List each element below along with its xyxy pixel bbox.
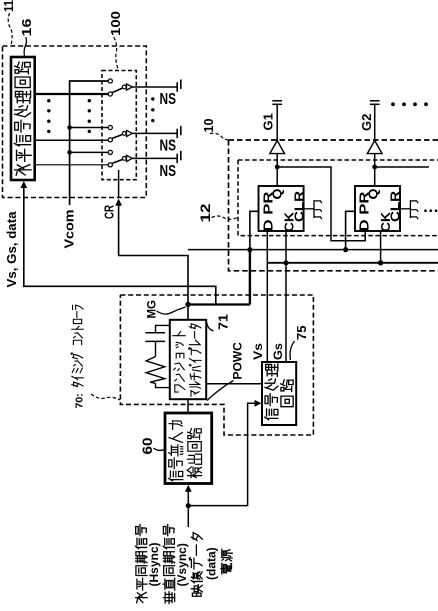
svg-text:10: 10 xyxy=(201,119,216,133)
svg-text:CLR: CLR xyxy=(389,191,403,222)
svg-text:Vs: Vs xyxy=(251,343,265,360)
svg-text:NS: NS xyxy=(160,91,177,108)
svg-text:(Hsync): (Hsync) xyxy=(147,542,161,586)
svg-text:16: 16 xyxy=(19,19,34,37)
svg-text:G2: G2 xyxy=(359,114,374,131)
svg-text:(data): (data) xyxy=(205,547,219,580)
svg-text:Q: Q xyxy=(367,188,381,199)
svg-text:(Vsync): (Vsync) xyxy=(175,543,189,586)
svg-text:CR: CR xyxy=(103,205,117,219)
svg-text:Vs, Gs, data: Vs, Gs, data xyxy=(5,210,19,287)
svg-text:70:: 70: xyxy=(73,393,85,408)
svg-text:Gs: Gs xyxy=(271,343,285,360)
svg-text:Vcom: Vcom xyxy=(63,210,77,249)
svg-text:60: 60 xyxy=(140,438,155,455)
svg-text:G1: G1 xyxy=(261,113,276,130)
svg-text:71: 71 xyxy=(216,314,231,330)
svg-text:Q: Q xyxy=(270,188,284,199)
svg-text:CLR: CLR xyxy=(292,191,306,222)
svg-text:100: 100 xyxy=(108,11,123,36)
svg-text:11: 11 xyxy=(1,0,16,12)
svg-text:POWC: POWC xyxy=(231,342,245,380)
svg-text:MG: MG xyxy=(145,300,159,319)
svg-text:75: 75 xyxy=(294,326,309,340)
svg-text:12: 12 xyxy=(198,204,213,223)
svg-text:NS: NS xyxy=(160,138,177,155)
svg-text:NS: NS xyxy=(160,163,177,180)
